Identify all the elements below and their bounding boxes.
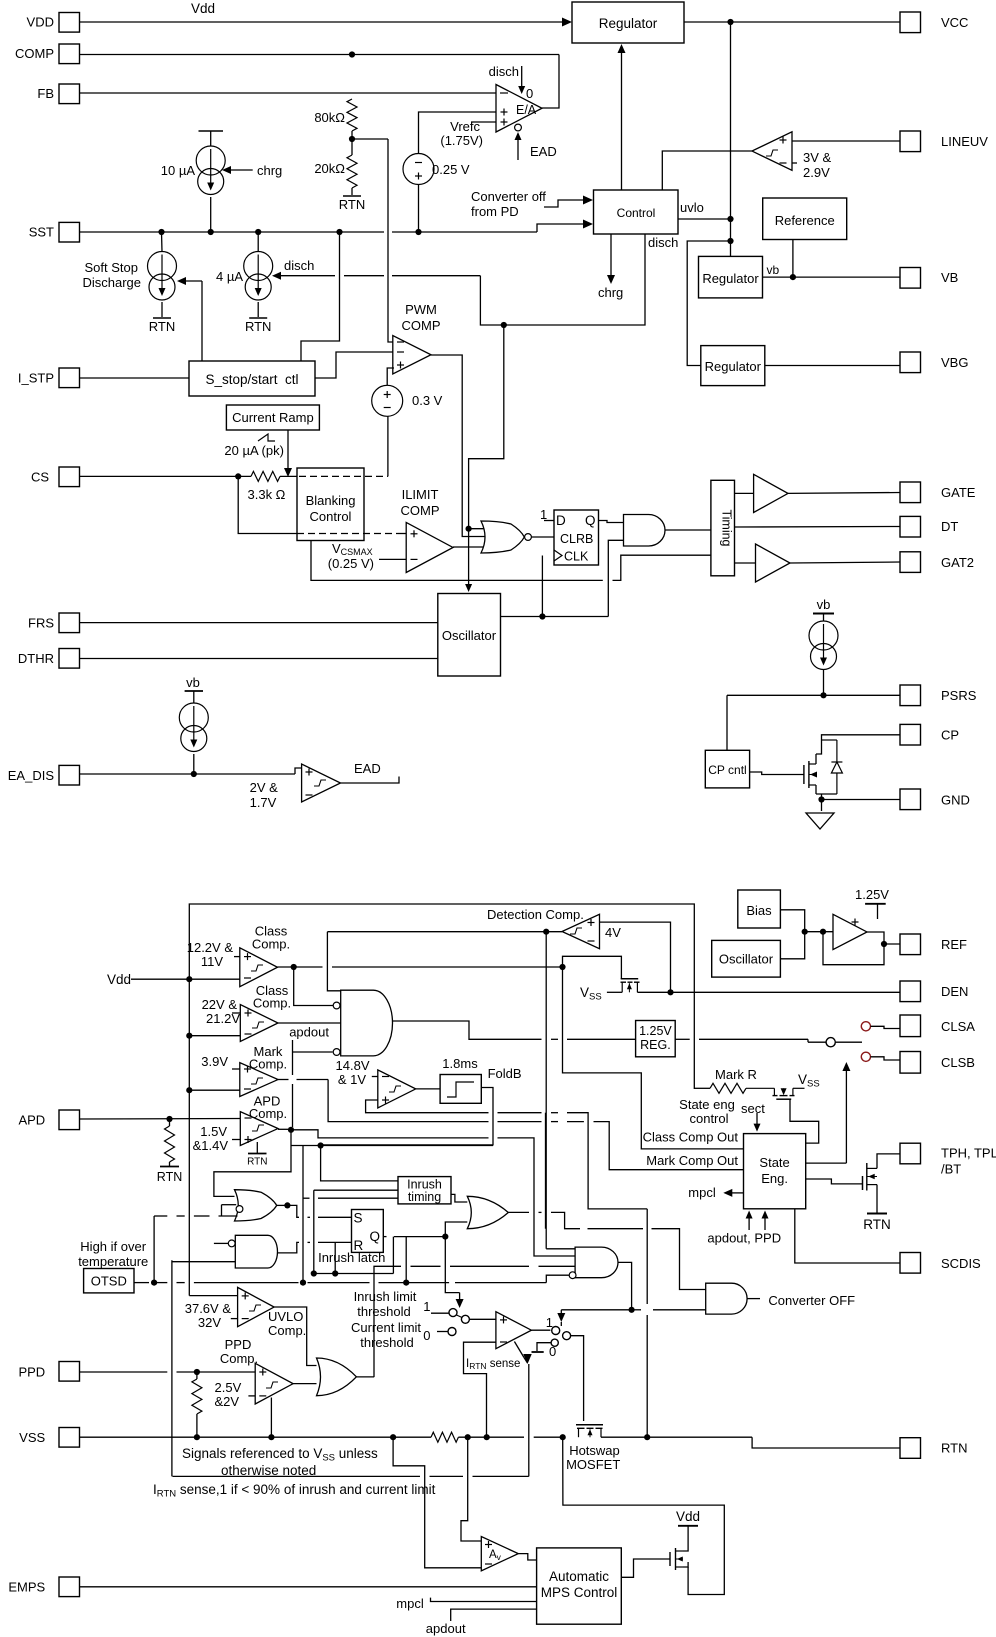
wire AND out to Timing (665, 529, 711, 531)
wire out blade to gate (571, 1336, 584, 1421)
svg-text:mpcl: mpcl (688, 1185, 716, 1200)
svg-text:1: 1 (423, 1299, 430, 1314)
wire or uvlo out (356, 1376, 374, 1378)
svg-text:VDD: VDD (27, 15, 54, 30)
wire class2 plus stub (232, 1012, 240, 1014)
pin LINEUV (900, 131, 921, 152)
junction class1 den (559, 964, 565, 970)
pin FB (59, 84, 80, 104)
svg-text:CS: CS (31, 470, 49, 485)
svg-text:EAD: EAD (530, 144, 557, 159)
svg-text:RTN: RTN (339, 197, 365, 212)
svg-text:Discharge: Discharge (82, 275, 141, 290)
svg-text:temperature: temperature (78, 1254, 148, 1269)
svg-text:APD: APD (18, 1113, 45, 1128)
wire state to TPH gate (806, 1179, 863, 1184)
contact CLSB (861, 1052, 870, 1061)
junction det DEN (667, 989, 673, 995)
wire sense to av (461, 1437, 481, 1541)
pin I_STP (59, 368, 80, 388)
net boundary box top (189, 904, 694, 1296)
svg-text:3V &: 3V & (803, 150, 832, 165)
svg-text:disch: disch (648, 235, 678, 250)
wire fold plus (366, 1100, 489, 1113)
transistor DEN VSS mosfet (621, 978, 639, 980)
comparator LINEUV 3V/2.9V (752, 132, 792, 171)
contact thr 0 (448, 1328, 456, 1336)
resistor APD (169, 1119, 171, 1126)
resistor RTN sense (431, 1432, 458, 1442)
svg-text:VB: VB (941, 270, 958, 285)
junction SST softstop (158, 229, 164, 235)
bubble conv AND in4 (569, 1272, 576, 1279)
junction CLK osc (539, 613, 545, 619)
wire VDD to Regulator (80, 21, 565, 23)
pin REF (900, 934, 921, 955)
junction EA_DIS (191, 771, 197, 777)
svg-text:S: S (354, 1211, 363, 1226)
junction VCC line (727, 19, 733, 25)
ground RTN apd comp (256, 1142, 258, 1153)
wire class blade (835, 1041, 862, 1043)
wire osc2 to buffer (780, 932, 804, 959)
pin CLSB (900, 1052, 921, 1074)
wire divider to PWM comp (388, 139, 393, 342)
wire lineuv threshold stub (792, 162, 797, 164)
svg-text:VSS: VSS (19, 1430, 45, 1445)
pin PSRS (900, 685, 921, 706)
wire FRS (80, 622, 438, 624)
svg-text:Timing: Timing (720, 509, 734, 546)
junction bus otsd (300, 1280, 306, 1286)
wire SCDIS (795, 1209, 900, 1263)
wire apd to nor (214, 1146, 291, 1197)
svg-text:Inrush latch: Inrush latch (318, 1250, 385, 1265)
svg-text:Converter OFF: Converter OFF (768, 1293, 855, 1308)
wire uvlo out (274, 1307, 316, 1366)
svg-text:from PD: from PD (471, 204, 519, 219)
wire osc to AND input (608, 540, 623, 616)
wire 0.25V to SST rail (418, 185, 420, 233)
svg-text:REF: REF (941, 937, 967, 952)
voltage source 0.25V (403, 154, 434, 185)
svg-text:20kΩ: 20kΩ (314, 161, 345, 176)
bubble NOR inrush in (236, 1206, 243, 1213)
gate apdout AND (341, 990, 393, 1056)
junction NOR inrush out (284, 1202, 290, 1208)
svg-text:High if over: High if over (80, 1239, 146, 1254)
comparator ILIMIT COMP (406, 522, 453, 572)
bubble EAD enable (515, 124, 522, 131)
junction reference vb (790, 274, 796, 280)
svg-text:PSRS: PSRS (941, 688, 977, 703)
wire irtn sense line (173, 1475, 421, 1477)
wire 0.3V bottom to CS dashed node (387, 416, 389, 476)
junction GND (818, 796, 824, 802)
pin SCDIS (900, 1253, 921, 1274)
resistor Mark R (694, 1087, 710, 1089)
block Inrush timing (398, 1177, 451, 1204)
resistor 20k (347, 155, 357, 188)
junction divider (349, 136, 355, 142)
wire E/A feedback (542, 55, 559, 109)
wire class1 down class-comp-out (563, 967, 744, 1149)
svg-text:COMP: COMP (15, 46, 54, 61)
svg-text:SCDIS: SCDIS (941, 1256, 981, 1271)
wire Vdd feed (131, 978, 189, 980)
wire FB to E/A inverting input (80, 92, 497, 94)
wire blanking bottom out (311, 541, 603, 581)
junction vdd class2 (186, 1033, 192, 1039)
svg-text:ILIMIT: ILIMIT (402, 487, 439, 502)
voltage source 0.3V (372, 385, 403, 416)
wire class line right (675, 1038, 690, 1040)
svg-text:10 µA: 10 µA (161, 163, 196, 178)
wire disch path to Control (480, 234, 645, 325)
wire EAD output (341, 777, 400, 784)
svg-text:2.9V: 2.9V (803, 165, 830, 180)
wire rail to threshold (392, 1237, 394, 1274)
junction latch q (442, 1234, 448, 1240)
wire CS line (80, 475, 252, 477)
pin VCC (900, 12, 921, 33)
svg-text:CLRB: CLRB (560, 532, 593, 546)
svg-text:MPS Control: MPS Control (541, 1585, 618, 1600)
wire inrush timing feed rail (314, 1273, 394, 1275)
svg-text:Q: Q (585, 513, 596, 528)
svg-text:Control: Control (617, 206, 656, 220)
wire class2 out (278, 1022, 341, 1024)
pin VB (900, 268, 921, 289)
wire rtn sense bus (646, 1209, 648, 1304)
wire latch feed R (334, 1242, 336, 1273)
transistor TPH mosfet (862, 1176, 864, 1190)
wire DEN rail (607, 991, 622, 993)
wire EA_DIS line (80, 773, 296, 775)
svg-text:PWM: PWM (405, 302, 437, 317)
svg-text:3.9V: 3.9V (201, 1054, 228, 1069)
svg-text:Eng.: Eng. (761, 1171, 788, 1186)
wire vdd mos source (683, 1562, 688, 1567)
wire GATE out (788, 492, 900, 495)
pin EMPS (59, 1577, 80, 1597)
wire apdout label net (292, 1040, 294, 1075)
wire conv off left (561, 1309, 631, 1311)
svg-text:Converter off: Converter off (471, 189, 546, 204)
junction hotswap left (560, 1434, 566, 1440)
wire conv out stub (747, 1298, 760, 1300)
wire nor out to S (287, 1205, 299, 1217)
svg-text:RTN: RTN (247, 1157, 267, 1168)
svg-text:Comp.: Comp. (268, 1323, 306, 1338)
wire LINEUV comp output (662, 151, 752, 190)
svg-text:EAD: EAD (354, 761, 381, 776)
block Reference (763, 198, 847, 240)
gate NOR inrush (235, 1190, 277, 1221)
svg-text:MOSFET: MOSFET (566, 1457, 620, 1472)
comparator PPD Comp (255, 1363, 293, 1404)
wire VBG out (765, 365, 900, 367)
svg-text:2.5V: 2.5V (215, 1380, 242, 1395)
wire dashed lower through blanking (297, 533, 398, 535)
wire Q to AND (599, 521, 624, 523)
svg-text:1.5V: 1.5V (200, 1124, 227, 1139)
svg-text:Vdd: Vdd (676, 1509, 700, 1524)
svg-text:RTN: RTN (245, 319, 271, 334)
ground symbol (821, 800, 823, 812)
svg-text:Vrefc: Vrefc (450, 119, 480, 134)
wire vss tap down (393, 1437, 481, 1568)
pin APD (59, 1110, 80, 1130)
svg-text:Reference: Reference (775, 213, 835, 228)
svg-text:Vdd: Vdd (107, 972, 131, 987)
block Automatic MPS Control (537, 1548, 622, 1624)
wire 0.25V to E/A plus (419, 112, 497, 154)
wire rtn step (752, 1437, 900, 1448)
wire EAD arrow (517, 134, 519, 160)
op-amp E/A (496, 85, 542, 133)
svg-text:11V: 11V (201, 954, 223, 969)
wire foldb rail (291, 1145, 493, 1147)
wire mpcl in (431, 1598, 537, 1602)
svg-text:apdout: apdout (289, 1025, 329, 1040)
resistor PPD (196, 1372, 198, 1379)
wire det to apdout top (327, 932, 340, 991)
wire to VBG regulator (687, 241, 730, 366)
svg-text:State: State (759, 1155, 789, 1170)
wire uvlo plus (189, 1295, 237, 1297)
svg-text:RTN: RTN (863, 1217, 891, 1232)
wire CS lower branch (238, 476, 297, 533)
svg-text:REG.: REG. (640, 1038, 671, 1052)
wire to ILIMIT plus (398, 533, 406, 535)
svg-text:I_STP: I_STP (18, 371, 54, 386)
wire VCC down rail (730, 22, 732, 241)
wire conv AND top in (546, 1248, 575, 1250)
junction ref in2 (820, 929, 826, 935)
svg-text:State eng: State eng (679, 1097, 735, 1112)
transistor CP mosfet (803, 765, 805, 784)
svg-text:OTSD: OTSD (91, 1274, 127, 1289)
svg-text:PPD: PPD (18, 1365, 45, 1380)
wire chrg output arrow (610, 234, 612, 276)
svg-text:S_stop/start ctl: S_stop/start ctl (205, 372, 298, 387)
wire disch to NOR and oscillator (468, 524, 470, 586)
gate AND converter-off out (706, 1283, 747, 1314)
wire conv AND out (618, 1262, 632, 1309)
svg-text:12.2V &: 12.2V & (187, 940, 234, 955)
svg-text:Mark R: Mark R (715, 1067, 757, 1082)
wire ppd out (293, 1383, 316, 1385)
svg-text:RTN: RTN (157, 1170, 182, 1184)
contact thr blade (461, 1315, 469, 1323)
wire CS sum node (280, 475, 299, 477)
comparator Detection 4V (562, 914, 600, 948)
regulator REG1 (VCC) (572, 2, 684, 43)
ground RTN under 20k (351, 188, 353, 195)
svg-text:Class Comp Out: Class Comp Out (643, 1130, 739, 1145)
block Regulator VB (699, 256, 763, 298)
resistor 3.3k (251, 471, 280, 481)
wire ref feedback (823, 932, 884, 965)
wire CLK (541, 556, 543, 617)
comparator Mark Comp 3.9V (240, 1063, 278, 1097)
wire otsd to conv AND bubble (546, 1275, 569, 1282)
wire nand in1 (214, 1242, 228, 1244)
svg-text:Comp.: Comp. (252, 937, 290, 952)
buffer GAT2 (756, 544, 791, 582)
wire CLSB (871, 1057, 901, 1060)
wire to VB regulator (730, 241, 732, 256)
svg-text:Vdd: Vdd (191, 1, 215, 16)
wire dashed CS through blanking (299, 475, 388, 477)
wire av out (518, 1554, 536, 1560)
comparator REF buffer (833, 914, 867, 949)
svg-text:4V: 4V (605, 925, 621, 940)
wire q branch down (405, 1237, 407, 1283)
wire mps out gate (621, 1559, 670, 1577)
pin TPH (900, 1143, 921, 1164)
wire fold plus rtn sense (567, 1113, 647, 1209)
comparator APD Comp 1.5V/1.4V (240, 1112, 278, 1146)
block State Eng (744, 1134, 806, 1209)
wire disch arrow into E/A (521, 66, 523, 88)
wire DTHR (80, 658, 438, 660)
svg-text:37.6V &: 37.6V & (185, 1301, 232, 1316)
wire OTSD rail (154, 1282, 167, 1284)
amplifier Av (481, 1537, 518, 1571)
svg-text:PPD: PPD (225, 1337, 252, 1352)
wire NOR out to CLRB (532, 536, 555, 538)
junction class1 out (291, 964, 297, 970)
svg-text:CP: CP (941, 728, 959, 743)
svg-text:VBG: VBG (941, 355, 968, 370)
svg-text:32V: 32V (198, 1315, 221, 1330)
wire sstop top to SST (301, 232, 340, 361)
svg-text:1: 1 (540, 507, 547, 522)
long vertical bus (302, 1146, 304, 1283)
svg-text:Control: Control (310, 509, 352, 524)
junction vdd class1 (186, 976, 192, 982)
wire PWM comp output (431, 355, 489, 537)
svg-text:RTN: RTN (149, 319, 175, 334)
junction ref fb (881, 941, 887, 947)
block Regulator VBG (701, 346, 765, 386)
junction SST 10uA (208, 229, 214, 235)
wire mark gate staircase (790, 1099, 819, 1143)
wire DT (735, 526, 901, 529)
svg-text:Oscillator: Oscillator (719, 952, 774, 967)
svg-text:EA_DIS: EA_DIS (8, 768, 55, 783)
wire PSRS rail (823, 670, 825, 695)
svg-text:Soft Stop: Soft Stop (85, 260, 138, 275)
svg-text:sect: sect (741, 1101, 765, 1116)
wire divider junction (351, 131, 353, 155)
pin DT (900, 516, 921, 537)
wire irtn vertical (528, 1364, 530, 1476)
svg-text:disch: disch (489, 64, 519, 79)
wire uvlo (678, 218, 731, 220)
wire nand in2 (172, 1261, 235, 1263)
wire class1 out (278, 966, 323, 968)
junction foldb rail (318, 1142, 324, 1148)
wire reference to vb (792, 240, 794, 278)
wire threshold 1 (431, 1312, 449, 1314)
comparator Foldback 14.8V/1V (378, 1070, 416, 1108)
wire class1 to apdout bubble (294, 967, 333, 1006)
pin GND (900, 789, 921, 810)
svg-text:Mark Comp Out: Mark Comp Out (646, 1153, 738, 1168)
wire VB out (763, 276, 901, 278)
wire inrush timing out (451, 1194, 467, 1202)
wire bias to buffer (780, 910, 804, 932)
svg-text:SST: SST (29, 225, 54, 240)
svg-text:Comp.: Comp. (253, 996, 291, 1011)
svg-text:&1.4V: &1.4V (193, 1138, 229, 1153)
wire softstop ctl vertical (201, 281, 203, 361)
wire or out to and2 (588, 1228, 644, 1230)
wire out sw arrow (560, 1322, 562, 1326)
svg-text:20 µA (pk): 20 µA (pk) (224, 443, 284, 458)
wire apdout PPD arrows (748, 1215, 750, 1230)
svg-text:COMP: COMP (402, 318, 441, 333)
current source Soft Stop Discharge (161, 232, 164, 252)
junction apd out (288, 1127, 294, 1133)
wire apd out right (291, 1130, 489, 1138)
svg-text:0: 0 (423, 1328, 430, 1343)
wire ppd comp gnd (270, 1398, 272, 1438)
wire disch branch down (469, 325, 504, 524)
wire sense right (458, 1436, 524, 1438)
wire foldb loop (321, 1088, 493, 1145)
svg-text:0.25 V: 0.25 V (432, 162, 470, 177)
wire conv off right (632, 1309, 641, 1311)
wire softstop ctl arrow (181, 280, 202, 282)
wire NOR bubble feed (222, 1204, 237, 1206)
junction vss ppd comp (268, 1434, 274, 1440)
svg-text:CP cntl: CP cntl (708, 763, 746, 777)
svg-text:Comp.: Comp. (249, 1057, 287, 1072)
pin GAT2 (900, 552, 921, 573)
buffer GATE (754, 474, 788, 512)
wire step to comparator (295, 768, 302, 774)
svg-text:D: D (556, 513, 566, 528)
wire ppd minus stub (248, 1395, 255, 1397)
comparator Class Comp 2 22V/21.2V (240, 1005, 278, 1042)
comparator Class Comp 1 12.2V/11V (240, 948, 278, 987)
flip-flop DFF (554, 510, 599, 565)
wire COMP line (80, 54, 560, 56)
transistor Vdd mosfet (669, 1552, 671, 1566)
wire Vrefc input (471, 121, 496, 123)
svg-text:DTHR: DTHR (18, 651, 54, 666)
block Control (594, 190, 679, 234)
wire VSS rail (80, 1436, 432, 1438)
wire Timing to GATE buffer (735, 492, 754, 494)
pin GATE (900, 482, 921, 503)
pin VBG (900, 352, 921, 373)
ground RTN TPH (867, 1213, 887, 1215)
wire nand out to R (278, 1242, 300, 1253)
wire mark out (278, 1079, 289, 1081)
wire disch arrow (392, 275, 480, 277)
pin RTN (900, 1438, 921, 1459)
wire detection vertical (545, 1113, 547, 1229)
svg-text:Signals referenced to VSS unle: Signals referenced to VSS unless (182, 1446, 378, 1464)
svg-text:2V &: 2V & (250, 780, 279, 795)
junction COMP/80k (349, 51, 355, 57)
svg-text:4 µA: 4 µA (216, 269, 243, 284)
